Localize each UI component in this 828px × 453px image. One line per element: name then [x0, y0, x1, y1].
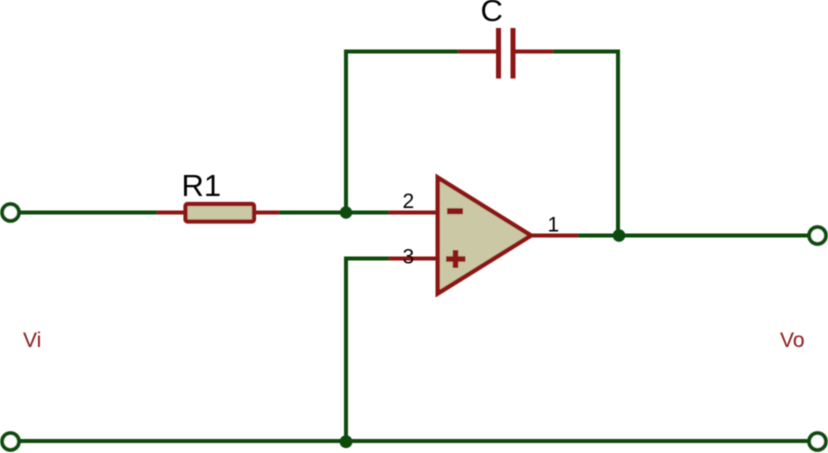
svg-text:R1: R1	[182, 168, 222, 203]
svg-text:3: 3	[403, 246, 415, 269]
svg-text:2: 2	[403, 190, 415, 213]
svg-text:C: C	[481, 0, 503, 28]
svg-text:Vo: Vo	[780, 329, 805, 352]
svg-text:Vi: Vi	[23, 329, 41, 352]
svg-text:1: 1	[548, 214, 560, 237]
